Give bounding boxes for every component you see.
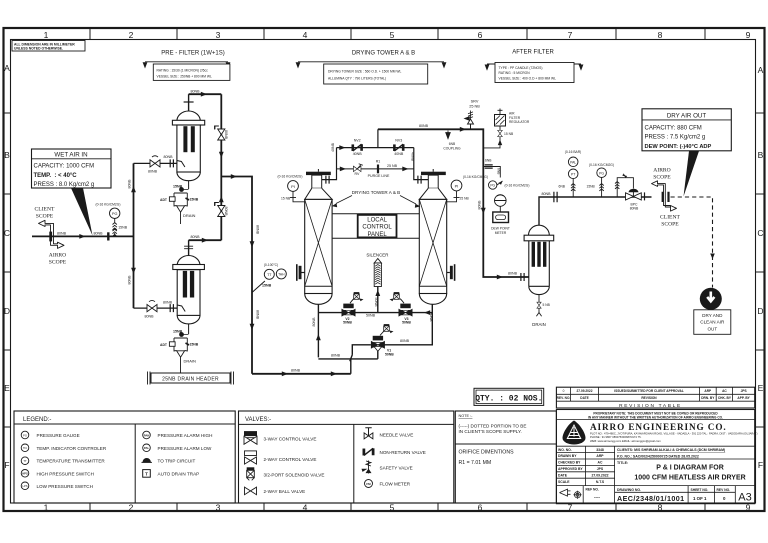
svg-text:TITLE:: TITLE:	[617, 461, 628, 465]
svg-text:ADT: ADT	[160, 343, 168, 347]
svg-text:3/2-PORT SOLENOID VALVE: 3/2-PORT SOLENOID VALVE	[264, 472, 325, 477]
orifice R1	[377, 165, 379, 174]
svg-text:2-WAY CONTROL VALVE: 2-WAY CONTROL VALVE	[264, 457, 317, 462]
svg-text:TEMP. : < 40°C: TEMP. : < 40°C	[34, 173, 78, 179]
svg-text:ORIFICE DIMENTIONS: ORIFICE DIMENTIONS	[459, 450, 515, 456]
svg-text:DRYING TOWER A & B: DRYING TOWER A & B	[352, 51, 415, 57]
svg-text:D: D	[4, 306, 10, 316]
valve sym non-return valve	[364, 448, 373, 455]
svg-text:2: 2	[129, 503, 134, 513]
wire tower B bottom nozzle	[384, 305, 432, 345]
tower A side blind flange	[302, 272, 305, 274]
svg-text:METER: METER	[495, 231, 507, 235]
svg-text:PLOT NO : 479-480C, JYOTIPURA,: PLOT NO : 479-480C, JYOTIPURA, KAYAVAROH…	[590, 431, 758, 435]
wire inlet selector piping	[318, 349, 377, 374]
svg-text:27.09.2022: 27.09.2022	[577, 389, 593, 393]
svg-text:TT: TT	[23, 459, 27, 463]
svg-text:15 NB: 15 NB	[281, 197, 291, 201]
dew point meter	[493, 212, 509, 223]
wire riser to top header	[377, 129, 379, 147]
svg-text:2-WAY BALL VALVE: 2-WAY BALL VALVE	[264, 489, 306, 494]
svg-text:B: B	[4, 150, 10, 160]
svg-text:DRAWN BY: DRAWN BY	[558, 454, 577, 458]
svg-text:50NB: 50NB	[402, 321, 411, 325]
scope break symbol at outlet	[652, 181, 677, 211]
legend low pressure switch	[21, 482, 29, 490]
svg-text:PRESS : 8.0 Kg/cm2 g: PRESS : 8.0 Kg/cm2 g	[34, 182, 95, 188]
svg-text:WO. NO.: WO. NO.	[558, 448, 572, 452]
grid tick marks bottom band	[90, 503, 705, 511]
svg-text:(0-16 KG/CM2G): (0-16 KG/CM2G)	[96, 203, 121, 207]
25NB drain header	[151, 373, 230, 383]
filter elements F1	[183, 126, 187, 152]
svg-text:NOTE :-: NOTE :-	[459, 414, 474, 418]
legend to trip circuit	[143, 458, 151, 462]
svg-text:80NB: 80NB	[191, 235, 201, 239]
svg-text:F: F	[758, 460, 763, 470]
svg-text:R1 = 7.01 MM: R1 = 7.01 MM	[459, 460, 492, 466]
svg-text:PG: PG	[112, 212, 118, 216]
pre-filter vessel F2 (standby)	[177, 256, 200, 266]
valve sym 3-way control valve	[244, 431, 257, 444]
wire main top header to after filter	[378, 129, 529, 277]
svg-text:40NB: 40NB	[353, 152, 363, 156]
svg-text:DRAIN: DRAIN	[183, 213, 196, 218]
wire tower A bottom nozzle	[317, 305, 319, 358]
tower A bottom dome	[305, 294, 332, 305]
grid row letters right	[757, 65, 763, 470]
svg-text:80NB: 80NB	[164, 155, 174, 159]
svg-text:AIRRO: AIRRO	[49, 253, 66, 259]
svg-text:80NB: 80NB	[542, 192, 552, 196]
svg-text:6: 6	[478, 30, 483, 40]
svg-text:TIC: TIC	[23, 446, 27, 450]
svg-text:80NB: 80NB	[508, 271, 518, 275]
F2 drain funnel	[174, 349, 187, 352]
svg-text:80NB: 80NB	[400, 339, 410, 343]
wire F2 outlet to valve column	[189, 239, 222, 241]
svg-text:40NB: 40NB	[331, 142, 335, 152]
svg-text:(0-16 KG/CM2G): (0-16 KG/CM2G)	[278, 175, 303, 179]
svg-text:AEC/2348/01/1001: AEC/2348/01/1001	[617, 494, 685, 503]
local control panel rails	[332, 214, 419, 239]
grid row letters left	[4, 63, 10, 470]
scope break flange bar	[49, 232, 52, 242]
svg-text:PRESSURE GAUGE: PRESSURE GAUGE	[37, 433, 80, 438]
svg-text:PANEL: PANEL	[367, 232, 387, 238]
svg-text:25NB DRAIN HEADER: 25NB DRAIN HEADER	[162, 377, 219, 383]
wire filtered air crossover	[221, 177, 252, 374]
drying tower A	[306, 172, 331, 175]
svg-text:PG: PG	[599, 171, 604, 175]
svg-text:80NB: 80NB	[291, 369, 301, 373]
valve sym 3/2-port solenoid valve	[247, 467, 255, 480]
svg-text:80NB: 80NB	[224, 207, 228, 217]
legend pressure gauge	[21, 431, 29, 439]
pre-filter vessel F1 (working)	[177, 111, 200, 121]
svg-text:50NB: 50NB	[343, 321, 352, 325]
wire pre-filter 1 inlet	[134, 162, 177, 164]
svg-text:80NB: 80NB	[331, 354, 341, 358]
svg-text:ADT: ADT	[160, 198, 168, 202]
projection symbol	[560, 489, 571, 496]
svg-text:DATE: DATE	[580, 396, 588, 400]
grid column numbers bottom	[44, 503, 751, 513]
svg-text:DEW POINT: (-)40°C ADP: DEW POINT: (-)40°C ADP	[645, 144, 712, 150]
svg-text:CAPACITY: 880 CFM: CAPACITY: 880 CFM	[645, 126, 702, 132]
notes box	[455, 411, 556, 503]
svg-text:50NB: 50NB	[366, 314, 376, 318]
svg-text:PG: PG	[490, 184, 495, 188]
svg-text:NV2: NV2	[354, 139, 361, 143]
svg-text:80NB: 80NB	[419, 124, 429, 128]
svg-text:TAH: TAH	[278, 273, 285, 277]
wire silencer riser	[377, 287, 379, 313]
svg-text:AC: AC	[598, 461, 603, 465]
svg-text:3: 3	[216, 503, 221, 513]
after filter drain	[538, 295, 540, 302]
drying tower spec box	[324, 64, 428, 84]
DRY AND CLEAN AIR OUT box	[694, 310, 731, 335]
svg-text:80NB: 80NB	[148, 169, 158, 173]
svg-text:VESSEL SIZE : 250NB + 800 MM W: VESSEL SIZE : 250NB + 800 MM WL	[157, 74, 212, 78]
svg-text:PG: PG	[23, 433, 27, 437]
svg-text:SHEET NO.: SHEET NO.	[691, 488, 709, 492]
6NB coupling tap	[446, 131, 451, 139]
F2 top nozzle	[188, 240, 190, 255]
local control panel	[358, 215, 397, 238]
dimensions note box top-left	[12, 41, 85, 52]
svg-text:JPS: JPS	[741, 389, 747, 393]
back pressure control valve BPC	[629, 189, 638, 192]
svg-text:HIGH PRESSURE SWITCH: HIGH PRESSURE SWITCH	[37, 471, 94, 476]
gate valve on column (lower)	[215, 203, 225, 217]
svg-text:9: 9	[746, 30, 751, 40]
svg-text:80NB: 80NB	[312, 317, 316, 327]
wire F1 outlet to valve column	[189, 93, 222, 95]
svg-text:(0-16 KG/CM2G): (0-16 KG/CM2G)	[589, 163, 614, 167]
svg-text:A3: A3	[738, 492, 751, 504]
valve sym needle valve	[364, 428, 373, 439]
svg-text:AUTO DRAIN TRAP: AUTO DRAIN TRAP	[158, 471, 200, 476]
svg-text:80NB: 80NB	[478, 200, 482, 210]
wire tower A top to purge bridge	[322, 148, 337, 180]
wire regeneration line (NV2/NV3)	[337, 147, 414, 149]
after filter vessel	[529, 225, 550, 235]
svg-text:DRYING TOWER A & B: DRYING TOWER A & B	[352, 190, 401, 195]
svg-text:CHK. BY: CHK. BY	[718, 396, 732, 400]
svg-text:PRESS : 7.5 Kg/cm2 g: PRESS : 7.5 Kg/cm2 g	[645, 135, 706, 141]
svg-text:SCOPE: SCOPE	[653, 175, 671, 181]
svg-text:(0-16 BAR): (0-16 BAR)	[565, 150, 582, 154]
svg-text:4: 4	[303, 503, 308, 513]
svg-text:80NB: 80NB	[191, 90, 201, 94]
svg-text:AIRRO: AIRRO	[653, 168, 670, 174]
QTY box	[474, 388, 544, 405]
svg-text:PAL: PAL	[144, 446, 150, 450]
svg-text:P.O. NO.: SAC/002/4250000725 D: P.O. NO.: SAC/002/4250000725 DATED 28.05…	[617, 454, 699, 458]
tower B bed support lines	[419, 285, 446, 287]
valve below AFR	[483, 126, 500, 148]
svg-text:80NB: 80NB	[256, 225, 260, 235]
svg-text:80NB: 80NB	[128, 275, 132, 285]
grid column numbers top	[44, 30, 751, 40]
svg-text:F: F	[4, 460, 9, 470]
svg-text:(-----) DOTTED PORTION TO BE: (-----) DOTTED PORTION TO BE	[459, 424, 527, 429]
svg-text:SCOPE: SCOPE	[661, 222, 679, 228]
F1 bottom dome	[177, 172, 200, 181]
svg-text:HPS: HPS	[22, 472, 28, 476]
svg-text:(0-100°C): (0-100°C)	[264, 263, 278, 267]
svg-text:LPS: LPS	[22, 484, 27, 488]
svg-text:80NB: 80NB	[630, 206, 639, 210]
svg-text:3-WAY CONTROL VALVE: 3-WAY CONTROL VALVE	[264, 436, 317, 441]
scope break symbol (hollow arrows) at inlet	[39, 220, 65, 248]
svg-text:7: 7	[568, 30, 573, 40]
svg-text:PHONE : 91 9867 086075/9099873: PHONE : 91 9867 086075/9099873174 75.	[590, 435, 642, 439]
svg-text:FLOW METER: FLOW METER	[380, 482, 411, 487]
svg-text:2: 2	[129, 30, 134, 40]
svg-text:50NB: 50NB	[374, 298, 378, 308]
svg-text:25 NB: 25 NB	[460, 197, 470, 201]
svg-text:JPS: JPS	[597, 467, 604, 471]
svg-text:ALLUMINA QTY : 790 LITERS (TOT: ALLUMINA QTY : 790 LITERS (TOTAL)	[328, 76, 386, 80]
svg-text:DRYING TOWER SIZE : 560 O.D. +: DRYING TOWER SIZE : 560 O.D. + 1500 MM W…	[328, 69, 402, 73]
svg-text:TEMP. INDICATOR CONTROLER: TEMP. INDICATOR CONTROLER	[37, 446, 107, 451]
F2 drain trap assembly	[188, 324, 190, 334]
legend table	[14, 411, 235, 503]
legend auto drain trap	[143, 470, 151, 478]
svg-text:UNLESS NOTED OTHERWISE.: UNLESS NOTED OTHERWISE.	[14, 47, 63, 51]
svg-text:C: C	[4, 228, 10, 238]
svg-text:A: A	[4, 63, 10, 73]
svg-text:0: 0	[563, 389, 565, 393]
svg-text:6NB: 6NB	[497, 168, 501, 175]
svg-text:P & I DIAGRAM FOR: P & I DIAGRAM FOR	[656, 465, 724, 472]
grid tick marks top band	[90, 28, 705, 40]
svg-text:LOCAL: LOCAL	[367, 218, 387, 224]
wire pre-filter 2 inlet	[134, 307, 178, 309]
svg-text:1: 1	[44, 30, 49, 40]
wire main wet air inlet line	[32, 235, 134, 237]
svg-text:80NB: 80NB	[57, 231, 67, 235]
leader wedge from DRY AIR OUT box	[684, 151, 700, 197]
svg-text:CLEAN AIR: CLEAN AIR	[700, 320, 725, 325]
svg-text:PRESSURE ALARM HIGH: PRESSURE ALARM HIGH	[158, 433, 213, 438]
svg-text:80NB: 80NB	[128, 179, 132, 189]
svg-text:ARP: ARP	[704, 389, 712, 393]
svg-text:WEB: www.airroengg.com EMAIL:: WEB: www.airroengg.com EMAIL: airroenggc…	[590, 439, 661, 443]
tower B cross bracing	[419, 199, 446, 286]
svg-text:CLIENT: CLIENT	[660, 215, 680, 221]
legend pressure alarm high	[143, 431, 151, 439]
svg-text:5: 5	[390, 503, 395, 513]
svg-text:REV NO.: REV NO.	[717, 488, 731, 492]
svg-text:1 OF 1: 1 OF 1	[693, 496, 707, 501]
tower A cross bracing	[305, 199, 332, 286]
svg-text:AIRRO ENGINEERING CO.: AIRRO ENGINEERING CO.	[590, 422, 727, 432]
svg-text:REV. NO.: REV. NO.	[557, 396, 571, 400]
wire tower B top to purge bridge	[414, 148, 429, 180]
svg-text:WET AIR IN: WET AIR IN	[54, 151, 87, 158]
svg-text:1000 CFM HEATLESS AIR DRYER: 1000 CFM HEATLESS AIR DRYER	[634, 475, 745, 482]
svg-text:B: B	[758, 150, 764, 160]
svg-text:15 NB: 15 NB	[504, 132, 514, 136]
svg-text:IN CLIENT'S SCOPE SUPPLY.: IN CLIENT'S SCOPE SUPPLY.	[459, 429, 522, 434]
svg-text:5: 5	[390, 30, 395, 40]
title block bottom row	[583, 486, 735, 504]
WET AIR IN info box	[32, 149, 112, 188]
svg-text:6NB: 6NB	[485, 159, 492, 163]
tower A bed support lines	[305, 285, 332, 287]
title block info grid	[556, 445, 754, 447]
svg-text:15NB: 15NB	[587, 184, 596, 188]
F2 bottom dome	[177, 315, 200, 323]
svg-text:VALVES:-: VALVES:-	[245, 417, 271, 423]
F2 inlet deflector	[177, 305, 185, 312]
svg-text:SRV: SRV	[471, 100, 479, 104]
svg-text:PRESSURE ALARM LOW: PRESSURE ALARM LOW	[158, 446, 213, 451]
svg-text:25 NB: 25 NB	[387, 164, 398, 168]
svg-text:SCOPE: SCOPE	[36, 214, 54, 220]
svg-text:D: D	[757, 306, 763, 316]
svg-text:CLIENT: CLIENT	[35, 207, 55, 213]
wire bottom feed header	[252, 373, 351, 375]
svg-text:TYPE : PP CANDLE (72NOS): TYPE : PP CANDLE (72NOS)	[499, 66, 543, 70]
svg-text:PI: PI	[455, 184, 459, 189]
F1 drain funnel	[174, 204, 187, 207]
legend high pressure switch	[21, 470, 29, 478]
valve sym 2-way control valve	[245, 451, 257, 464]
svg-text:ISSUED/SUBMITTED FOR CLIENT AP: ISSUED/SUBMITTED FOR CLIENT APPROVAL	[614, 389, 684, 393]
svg-text:NEEDLE VALVE: NEEDLE VALVE	[380, 433, 414, 438]
svg-text:PAL: PAL	[570, 161, 576, 165]
svg-text:1: 1	[44, 503, 49, 513]
svg-text:SILENCER: SILENCER	[366, 252, 388, 257]
svg-text:C: C	[757, 228, 763, 238]
svg-text:DRN. BY: DRN. BY	[701, 396, 715, 400]
F1 inlet deflector	[177, 161, 185, 168]
svg-text:CAPACITY: 1000 CFM: CAPACITY: 1000 CFM	[34, 164, 95, 170]
after filter spec box	[495, 63, 574, 83]
svg-text:40NB: 40NB	[411, 152, 415, 162]
svg-text:40NB: 40NB	[394, 152, 404, 156]
svg-text:VESSEL SIZE : 400 O.D + 800 MM: VESSEL SIZE : 400 O.D + 800 MM WL	[499, 76, 557, 80]
grid tick marks left band	[4, 113, 11, 427]
wire outlet valve column	[220, 94, 222, 240]
svg-text:5 NB: 5 NB	[543, 303, 551, 307]
svg-text:4: 4	[303, 30, 308, 40]
svg-text:NON-RETURN VALVE: NON-RETURN VALVE	[380, 450, 426, 455]
svg-text:LOW PRESSURE SWITCH: LOW PRESSURE SWITCH	[37, 484, 93, 489]
tower B side blind flange	[447, 272, 450, 274]
leader wedge from WET AIR IN box	[71, 188, 93, 236]
svg-text:TEMPERATURE TRANSMITTER: TEMPERATURE TRANSMITTER	[37, 459, 106, 464]
needle valve NV2	[353, 144, 362, 151]
svg-text:15NB: 15NB	[118, 226, 128, 230]
valve sym safety valve	[362, 461, 372, 474]
company logo	[563, 421, 586, 445]
wire riser to pre-filters	[133, 163, 135, 308]
svg-text:80NB: 80NB	[94, 231, 104, 235]
valve sym 2-way ball valve	[245, 487, 257, 495]
svg-text:E: E	[4, 383, 10, 393]
wire after filter outlet	[539, 197, 652, 225]
svg-text:3348: 3348	[596, 448, 604, 452]
valve RV on purge line	[353, 166, 361, 171]
svg-text:REVISION: REVISION	[641, 396, 657, 400]
svg-text:COUPLING: COUPLING	[443, 146, 461, 150]
scope break flange bars	[663, 192, 669, 202]
F1 drain trap assembly	[188, 181, 190, 189]
revision table	[556, 387, 754, 408]
svg-text:CHECKED BY: CHECKED BY	[558, 461, 581, 465]
svg-text:50NB: 50NB	[385, 352, 394, 356]
legend temp indicator controller	[21, 444, 29, 452]
wire purge manifold	[318, 312, 432, 314]
svg-text:SCALE: SCALE	[558, 480, 570, 484]
air filter regulator	[495, 115, 506, 127]
filter elements F2	[183, 271, 187, 298]
svg-text:25 NB: 25 NB	[469, 104, 480, 108]
3-way control valve V3	[399, 304, 413, 317]
svg-text:ARP: ARP	[596, 454, 604, 458]
pre-filter spec box	[153, 64, 230, 80]
tower B bottom dome	[419, 294, 446, 305]
svg-text:E: E	[758, 383, 764, 393]
svg-text:T: T	[145, 472, 148, 477]
svg-text:IN ANY MANNER WITHOUT THE WRIT: IN ANY MANNER WITHOUT THE WRITTEN AUTHOR…	[588, 415, 723, 419]
legend pressure alarm low	[143, 444, 151, 452]
after filter bottom dome	[529, 286, 550, 294]
svg-text:8: 8	[658, 30, 663, 40]
svg-text:AFTER FILTER: AFTER FILTER	[512, 50, 554, 56]
wire purge line	[337, 168, 414, 170]
svg-text:PAH: PAH	[144, 433, 150, 437]
gate valve on column (upper)	[215, 126, 225, 140]
svg-text:APP. BY: APP. BY	[737, 396, 750, 400]
gate valve pre-filter 2 inlet	[147, 305, 157, 312]
svg-text:AC: AC	[722, 389, 727, 393]
svg-text:6: 6	[478, 503, 483, 513]
svg-text:QTY. : 02 NOS.: QTY. : 02 NOS.	[475, 394, 542, 403]
svg-text:CONTROL: CONTROL	[362, 225, 392, 231]
svg-text:APPROVED BY: APPROVED BY	[558, 467, 583, 471]
dry air outlet terminator circle	[700, 288, 722, 310]
drying tower B	[421, 172, 446, 175]
svg-text:LEGEND:-: LEGEND:-	[23, 417, 51, 423]
svg-text:A: A	[758, 65, 764, 75]
legend temperature transmitter	[21, 457, 29, 465]
svg-text:PI: PI	[291, 184, 295, 189]
wire dashed client outlet	[671, 197, 713, 288]
svg-text:RV: RV	[355, 172, 361, 176]
flange on inlet line	[107, 232, 109, 240]
svg-text:SCOPE: SCOPE	[49, 260, 67, 266]
svg-text:DRAIN: DRAIN	[532, 322, 546, 327]
svg-text:REVISION TABLE: REVISION TABLE	[619, 403, 682, 409]
DRY AIR OUT info box	[642, 109, 731, 151]
BPC bypass loop	[617, 178, 633, 197]
3-way control valve V2	[342, 304, 356, 317]
svg-text:NV3: NV3	[395, 139, 402, 143]
valve sym flow meter	[365, 480, 373, 488]
svg-text:R1: R1	[376, 160, 381, 164]
svg-text:80NB: 80NB	[145, 315, 155, 319]
svg-text:80NB: 80NB	[163, 300, 173, 304]
svg-text:15NB: 15NB	[190, 198, 199, 202]
svg-text:6NB: 6NB	[559, 184, 566, 188]
